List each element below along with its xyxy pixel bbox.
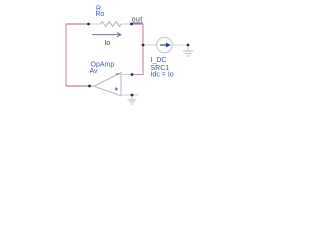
wire left vertical (65, 24, 67, 86)
wire top-left horizontal (66, 23, 89, 25)
resistor R1 zigzag (101, 22, 122, 27)
current source arrow (160, 44, 167, 46)
op-amp output stub (90, 85, 96, 87)
wire to op-amp minus input (132, 74, 143, 76)
node dot op-amp output (88, 85, 91, 88)
node dot op-amp plus pin (131, 94, 134, 97)
resistor R1 leads (89, 23, 101, 25)
current source right lead (172, 44, 188, 46)
node dot left resistor pin (87, 23, 90, 26)
svg-text:out: out (132, 17, 143, 24)
svg-text:Io: Io (105, 40, 111, 47)
ground left (op-amp plus input) (131, 95, 133, 100)
node dot feedback junction (142, 44, 145, 47)
node dot out (130, 23, 133, 26)
wire junction to current source (143, 44, 157, 46)
op-amp minus sign (116, 73, 119, 75)
node dot current source ground pin (187, 44, 190, 47)
svg-text:I_DC: I_DC (151, 57, 167, 64)
svg-text:Idc = Io: Idc = Io (151, 72, 174, 79)
current arrow Io (92, 34, 120, 36)
wire bottom horizontal to op-amp output (66, 85, 90, 87)
op-amp plus pin stub (121, 94, 139, 96)
node dot op-amp minus pin (131, 73, 134, 76)
svg-text:Ro: Ro (96, 11, 105, 18)
op-amp U1 triangle (94, 73, 121, 96)
op-amp plus sign (115, 88, 118, 90)
svg-text:Av: Av (90, 68, 99, 75)
op-amp minus pin stub (121, 74, 132, 76)
wire out node to feedback corner (132, 23, 144, 25)
ground right (current source) (187, 45, 189, 51)
current source SRC1 circle (157, 37, 173, 53)
wire feedback vertical (142, 24, 144, 76)
